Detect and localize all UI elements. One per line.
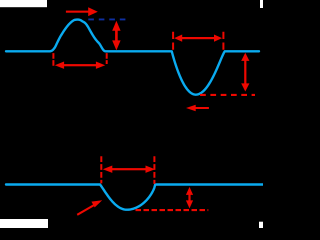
white patch bottom-right corner [259,222,263,228]
red dashed tick below pulse left [52,53,54,66]
red dashed tick above neg pulse left [172,32,174,51]
bottom signal trace: baseline with settling dip [6,185,263,210]
red dashed line at dip bottom level [136,209,209,211]
red diagonal arrow pointing at dip start [77,200,103,216]
red vertical double arrow (dip depth) at x=189.5 [186,187,193,209]
red dashed tick above neg pulse right [222,32,224,51]
red left arrow under neg pulse (recovery direction) [186,105,209,112]
white patch top-left [0,0,47,7]
red horizontal double arrow (pulse width) [55,62,105,69]
red vertical double arrow (overshoot amplitude) at x=116.4 [112,21,120,51]
red horizontal double arrow (dip width) [103,166,155,173]
top signal trace: baseline, positive pulse, negative pulse [6,20,259,95]
red dashed tick below pulse right [106,53,108,64]
red vertical double arrow (undershoot depth) at x=245.3 [241,53,249,92]
white patch top-right corner [260,0,263,8]
red dashed line at neg pulse bottom level [200,94,255,96]
peak level dashed line (dark blue) [88,18,125,20]
red arrow top (direction of travel) [66,7,98,16]
white patch bottom-left [0,219,48,228]
red dashed tick above dip left [100,156,102,183]
red dashed tick above dip right [153,156,155,184]
red horizontal double arrow (neg pulse width) [174,35,222,42]
